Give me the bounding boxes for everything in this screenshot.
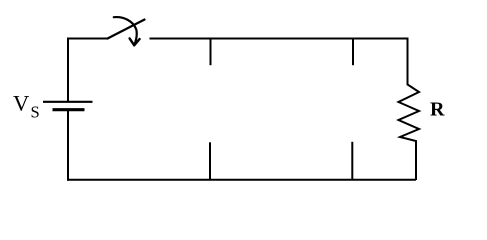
battery VS short plate bbox=[53, 108, 85, 111]
resistor R (leads and zigzag) bbox=[399, 38, 420, 181]
wire from battery bottom to bottom-left corner bbox=[67, 110, 69, 181]
svg-text:R: R bbox=[430, 99, 445, 121]
switch closing arrow arc bbox=[114, 17, 137, 45]
wire bottom bbox=[68, 179, 416, 181]
svg-text:S: S bbox=[31, 103, 40, 122]
wire top from switch contact to top-right corner bbox=[150, 38, 408, 40]
switch closing arrowhead barbs bbox=[130, 38, 140, 45]
wire left vertical + top-left segment to switch hinge bbox=[68, 39, 108, 102]
switch S blade bbox=[107, 19, 146, 39]
top stub node A bbox=[210, 39, 212, 66]
battery VS long plate bbox=[43, 101, 93, 103]
svg-text:V: V bbox=[13, 91, 29, 116]
top stub node B bbox=[352, 39, 354, 66]
bottom stub node C bbox=[209, 142, 211, 180]
bottom stub node D bbox=[351, 142, 353, 180]
